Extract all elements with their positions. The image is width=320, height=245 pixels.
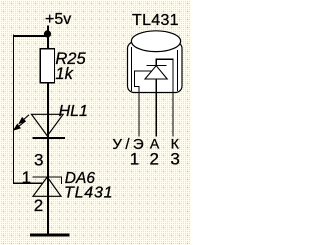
svg-text:TL431: TL431	[64, 185, 113, 202]
package top ellipse	[131, 31, 180, 52]
internal zener triangle	[145, 66, 167, 79]
wire: top horizontal from junction to left rail	[13, 35, 48, 37]
svg-text:+5v: +5v	[45, 11, 71, 28]
TL431 DA6 triangle	[33, 177, 61, 196]
wire: resistor bottom to LED	[47, 83, 49, 138]
node: +5v junction dot	[44, 30, 51, 37]
LED arrow 2	[14, 121, 26, 130]
TL431 DA6 cathode bar with bend	[33, 177, 62, 184]
internal cathode path to leg 3	[156, 59, 173, 136]
svg-text:TL431: TL431	[132, 12, 179, 29]
wire: control electrode wire to DA6	[13, 182, 43, 184]
svg-text:2: 2	[34, 196, 43, 215]
LED HL1 cathode bar	[33, 137, 66, 139]
resistor R25	[40, 49, 54, 83]
package side tangent right	[176, 50, 178, 91]
internal reference path to leg 1	[135, 71, 152, 137]
svg-text:1: 1	[22, 168, 31, 187]
internal zener cathode bar	[147, 65, 167, 67]
wire: LED cathode to DA6 and through to ground	[47, 137, 49, 235]
LED HL1 triangle	[32, 114, 64, 136]
svg-text:HL1: HL1	[59, 103, 88, 120]
wire: +5v stub down to junction	[47, 26, 49, 36]
TO-92 package body	[128, 42, 183, 93]
svg-text:1k: 1k	[55, 65, 73, 83]
svg-text:2: 2	[150, 149, 159, 168]
internal anode path / leg 2	[155, 79, 157, 137]
LED arrow 1	[19, 115, 29, 124]
svg-text:3: 3	[34, 150, 43, 169]
wire: left vertical rail	[12, 35, 14, 184]
svg-text:3: 3	[170, 150, 179, 169]
package side tangent left	[131, 47, 133, 91]
ground	[30, 234, 70, 237]
wire: junction to resistor top	[47, 35, 49, 49]
svg-text:1: 1	[130, 149, 139, 168]
